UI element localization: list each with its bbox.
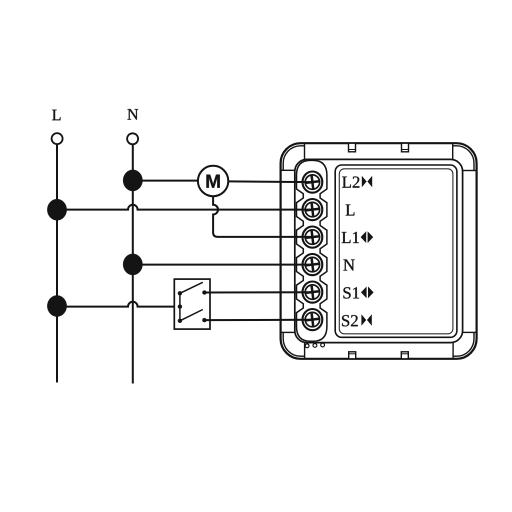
icon close L2 (362, 176, 372, 187)
icon open L1 (361, 231, 374, 243)
terminal block scalloped outline (297, 160, 327, 341)
indicator dot 1 (305, 344, 309, 348)
clip tab top-left (349, 143, 356, 152)
node: L junction lower (47, 295, 66, 316)
wire: motor to terminal L1 (hops right over L wire) (213, 196, 312, 237)
lid tick left-top (281, 169, 295, 171)
clip tab bottom-right lip (401, 353, 408, 355)
label S1 (343, 287, 359, 298)
screw terminal L1 (303, 227, 323, 248)
label L (supply live) (52, 110, 60, 120)
clip tab bottom-left (349, 352, 356, 359)
wire N vertical (132, 144, 134, 383)
motor M (198, 166, 228, 196)
switch common link (179, 293, 181, 321)
switch contact dot upper (202, 291, 206, 295)
lid tick bottom-right (452, 343, 454, 359)
lid tick right-top (463, 170, 477, 172)
label L2 (342, 176, 359, 187)
wire: switch contact to terminal S1 (204, 291, 312, 293)
module outer shell (281, 143, 477, 359)
wire: L junction to terminal L (hops over N wire) (57, 205, 312, 210)
wire: motor to terminal L2 (228, 180, 312, 183)
lid tick top-left (304, 143, 306, 159)
front panel outer outline (335, 165, 457, 337)
screw terminal S1 (303, 282, 323, 303)
shell corner accent bottom-left (283, 332, 304, 356)
clip tab top-right (402, 143, 409, 152)
clip tab top-left lip (349, 149, 356, 151)
front panel inner outline (339, 169, 453, 334)
lid tick right-bottom (463, 331, 477, 333)
lid tick top-right (452, 143, 454, 159)
wire: N junction to motor (133, 180, 198, 182)
node: L junction upper (47, 199, 66, 220)
label S2 (342, 315, 358, 326)
label L (346, 205, 355, 216)
lid tick left-bottom (281, 331, 295, 333)
switch lever upper (180, 282, 203, 293)
icon close S2 (361, 314, 371, 325)
switch box (174, 279, 210, 329)
screw terminal N (303, 254, 323, 275)
label N (343, 260, 354, 271)
label N (supply neutral) (127, 109, 138, 119)
clip tab top-right lip (402, 149, 409, 151)
wire: switch contact to terminal S2 (204, 319, 312, 321)
switch contact dot lower (202, 318, 206, 322)
screw terminal L (303, 199, 323, 220)
switch pole dot upper (178, 291, 182, 295)
icon open S1 (361, 287, 374, 299)
wire: L junction to switch common (hops over N wire) (57, 302, 174, 307)
screw terminal S2 (303, 309, 323, 330)
clip tab bottom-right (401, 352, 408, 359)
terminal circle L (52, 133, 63, 144)
wire: N junction to terminal N (133, 264, 313, 266)
indicator dot 3 (321, 343, 325, 347)
switch lever lower (180, 310, 203, 321)
switch pole dot middle (178, 305, 182, 309)
shell corner accent bottom-right (453, 332, 474, 356)
node: N junction lower (123, 254, 142, 275)
switch pole dot lower (178, 319, 182, 323)
screw terminal L2 (303, 172, 323, 193)
node: N junction upper (123, 170, 142, 191)
indicator dot 2 (313, 344, 317, 348)
shell corner accent top-left (283, 146, 304, 171)
shell corner accent top-right (453, 146, 474, 171)
lid seam outline (295, 159, 463, 342)
label L1 (342, 232, 359, 243)
wire L vertical (56, 144, 58, 383)
terminal circle N (127, 133, 138, 144)
clip tab bottom-left lip (349, 353, 356, 355)
lid tick bottom-left (304, 343, 306, 359)
